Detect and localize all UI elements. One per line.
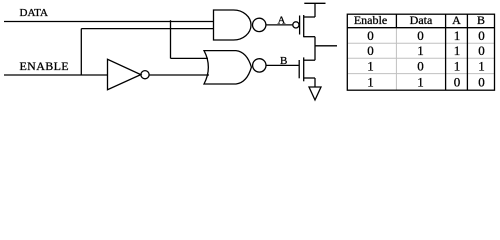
svg-text:0: 0 [417, 59, 424, 74]
transistor Q1 PMOS source lead [304, 16, 315, 18]
wire PMOS source up to VDD rail [314, 3, 316, 17]
wire into NOR top input [171, 57, 209, 59]
wire to NAND bottom input [81, 28, 213, 30]
wire output stub [315, 45, 337, 47]
wire B: NOR output to NMOS gate [266, 64, 299, 66]
table row 2: 0 1 1 0 [367, 43, 485, 58]
wire DATA branch down to NOR top input [170, 20, 172, 58]
table row 3: 1 0 1 1 [367, 59, 485, 74]
svg-text:DATA: DATA [20, 7, 49, 19]
transistor Q1 PMOS drain lead [304, 36, 315, 38]
svg-text:Data: Data [410, 13, 433, 27]
svg-text:0: 0 [478, 28, 485, 43]
svg-text:ENABLE: ENABLE [20, 59, 69, 73]
table black borders [347, 14, 494, 90]
svg-text:0: 0 [478, 74, 485, 89]
svg-text:1: 1 [367, 59, 374, 74]
svg-text:0: 0 [454, 74, 461, 89]
NAND gate U2 bubble [253, 18, 266, 31]
wire PMOS drain to NMOS drain [314, 37, 316, 61]
inverter U1 bubble [141, 71, 149, 79]
svg-text:Enable: Enable [354, 13, 387, 27]
svg-text:0: 0 [478, 43, 485, 58]
transistor Q1 PMOS gate bubble [293, 22, 299, 28]
transistor Q1 PMOS gate bar [299, 16, 301, 35]
wire DATA to NAND top input [4, 21, 214, 23]
svg-text:1: 1 [367, 74, 374, 89]
NAND gate U2 body [214, 10, 252, 40]
table header text [354, 13, 485, 27]
NOR gate U3 bubble [253, 59, 266, 72]
svg-text:0: 0 [417, 28, 424, 43]
svg-text:0: 0 [367, 28, 374, 43]
transistor Q2 NMOS gate bar [298, 60, 300, 78]
transistor Q2 NMOS channel bar [303, 57, 305, 81]
svg-text:1: 1 [454, 43, 461, 58]
transistor Q1 PMOS channel bar [303, 15, 305, 37]
transistor Q2 NMOS drain lead [304, 59, 315, 61]
ground [309, 87, 321, 100]
NOR gate U3 body [204, 51, 251, 84]
transistor Q2 NMOS source lead [304, 77, 315, 79]
svg-text:1: 1 [417, 43, 424, 58]
svg-text:A: A [452, 13, 461, 27]
wire ENABLE to inverter input [4, 74, 108, 76]
svg-text:B: B [477, 13, 485, 27]
svg-text:0: 0 [367, 43, 374, 58]
table row 1: 0 0 1 0 [367, 28, 485, 43]
wire inverter output to NOR bottom input [149, 74, 209, 76]
wire ENABLE branch up [80, 29, 82, 75]
svg-text:1: 1 [478, 59, 485, 74]
wire A: NAND output to PMOS gate bubble [266, 24, 293, 26]
VDD rail [304, 2, 325, 4]
truth table [347, 13, 494, 90]
svg-text:1: 1 [417, 74, 424, 89]
wire NMOS source down to ground [314, 78, 316, 87]
inverter U1 triangle [108, 59, 141, 89]
table row 4: 1 1 0 0 [367, 74, 485, 89]
svg-text:1: 1 [454, 59, 461, 74]
table grey inner gridlines [348, 28, 495, 90]
svg-text:1: 1 [454, 28, 461, 43]
